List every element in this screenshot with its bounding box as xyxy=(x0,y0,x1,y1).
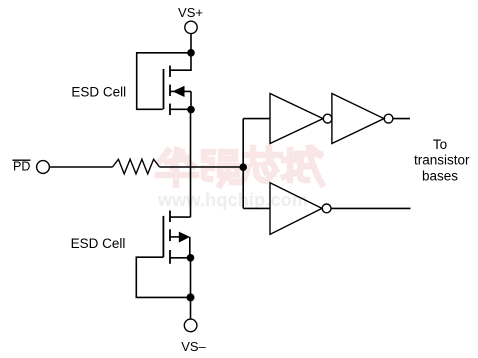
wire M2 source to VS- rail xyxy=(190,258,192,319)
svg-text:PD: PD xyxy=(13,159,30,173)
svg-text:To: To xyxy=(433,137,447,152)
wire PD to resistor xyxy=(49,166,112,168)
inverter U2 xyxy=(332,94,393,144)
inverter U1 xyxy=(270,94,332,144)
terminal VS- xyxy=(184,319,197,332)
wire U3 output xyxy=(331,207,411,209)
wire center rail (M1 source to M2 drain) xyxy=(190,110,192,218)
svg-text:ESD Cell: ESD Cell xyxy=(71,85,126,100)
transistor M1 (top ESD MOSFET) xyxy=(164,53,192,115)
wire gate loop of M1 (VS+ to gate) xyxy=(137,53,191,110)
wire branch to inverter U3 input xyxy=(243,207,270,209)
svg-text:VS+: VS+ xyxy=(178,5,203,20)
wire resistor to junction xyxy=(160,166,244,168)
junction VS+ rail xyxy=(187,49,195,57)
svg-text:transistor: transistor xyxy=(414,153,470,168)
svg-text:ESD Cell: ESD Cell xyxy=(71,236,126,251)
watermark www.hqchip.com xyxy=(157,190,308,210)
wire U2 output xyxy=(393,118,410,120)
wire branch to inverter U1 input xyxy=(243,118,270,120)
junction M2 source node xyxy=(187,254,195,262)
junction VS- rail xyxy=(187,293,195,301)
svg-text:VS–: VS– xyxy=(181,339,206,354)
terminal PD xyxy=(37,161,50,174)
wire branch vertical xyxy=(242,119,244,209)
junction node A (inverter branch) xyxy=(239,163,247,171)
svg-text:bases: bases xyxy=(422,168,458,183)
terminal VS+ xyxy=(185,21,197,33)
transistor M2 (bottom ESD MOSFET) xyxy=(163,211,190,264)
wire gate loop of M2 (gate to VS-) xyxy=(136,257,190,297)
watermark 华强芯城 xyxy=(158,148,322,185)
svg-text:www.hqchip.com: www.hqchip.com xyxy=(157,190,308,210)
junction M1 source node xyxy=(187,106,195,114)
wire VS+ terminal to rail xyxy=(190,34,192,53)
resistor R1 xyxy=(113,159,160,174)
label To transistor bases xyxy=(414,137,470,183)
inverter U3 xyxy=(270,183,331,235)
